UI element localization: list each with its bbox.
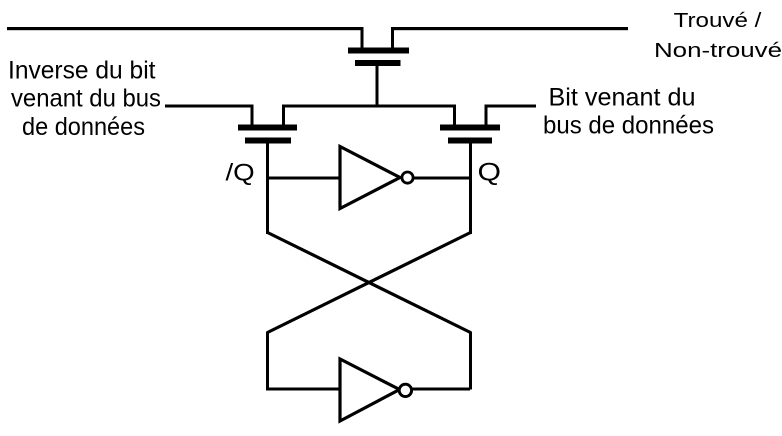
svg-text:bus de données: bus de données	[543, 112, 714, 140]
svg-text:Non-trouvé: Non-trouvé	[654, 40, 782, 62]
svg-text:venant du bus: venant du bus	[11, 85, 161, 113]
svg-text:Inverse du bit: Inverse du bit	[8, 56, 156, 84]
svg-text:de données: de données	[22, 113, 145, 141]
svg-text:Q: Q	[478, 159, 502, 187]
svg-text:/Q: /Q	[226, 160, 255, 187]
svg-text:Bit venant du: Bit venant du	[549, 84, 696, 112]
svg-text:Trouvé /: Trouvé /	[674, 10, 762, 32]
